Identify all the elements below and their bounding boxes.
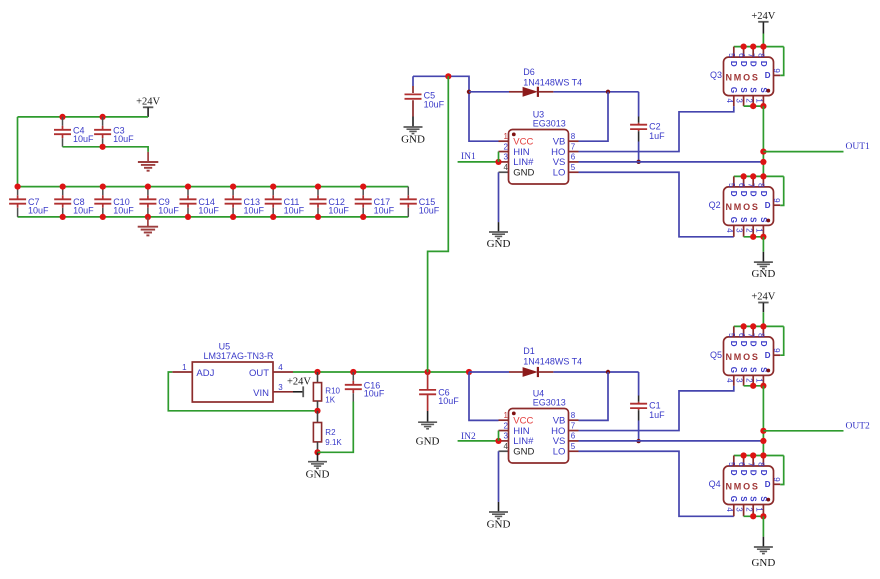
svg-text:6: 6: [737, 462, 746, 467]
svg-text:EG3013: EG3013: [533, 398, 566, 408]
wire IN2: [458, 440, 499, 442]
wire LO (U3 pin5 to Q2 gate): [579, 172, 734, 237]
wire Q4 drain top: [734, 455, 784, 457]
wire Q4 pin9 loop: [780, 456, 784, 485]
svg-text:2: 2: [744, 507, 753, 512]
pin 1 ADJ: [172, 371, 192, 373]
wire vertical left rail drop: [17, 117, 19, 187]
svg-text:8: 8: [757, 333, 766, 338]
svg-text:10uF: 10uF: [158, 206, 179, 216]
svg-text:LO: LO: [553, 168, 566, 179]
svg-text:D: D: [765, 201, 771, 210]
wire ADJ feedback: [168, 372, 317, 411]
capacitor C13: [232, 187, 234, 196]
wire D6 cathode: [538, 91, 554, 93]
svg-text:7: 7: [746, 333, 755, 338]
svg-text:7: 7: [571, 421, 576, 430]
svg-text:D: D: [739, 341, 748, 347]
svg-text:D: D: [765, 480, 771, 489]
node C1 bottom junction: [636, 439, 640, 443]
capacitor C15: [407, 187, 409, 196]
svg-text:HO: HO: [551, 426, 565, 437]
svg-text:VB: VB: [553, 137, 566, 148]
diode D6: [523, 87, 538, 97]
svg-text:1: 1: [755, 228, 764, 233]
svg-text:6: 6: [737, 183, 746, 188]
wire Q2 source to ground: [762, 237, 764, 252]
svg-text:7: 7: [571, 142, 576, 151]
capacitor C10: [102, 187, 104, 196]
svg-text:10uF: 10uF: [244, 206, 265, 216]
svg-text:VCC: VCC: [513, 137, 533, 148]
junction dots Q4 source: [750, 513, 756, 519]
svg-text:1: 1: [755, 98, 764, 103]
svg-text:D: D: [739, 470, 748, 476]
wire VB (U3 pin8): [579, 92, 609, 141]
pin 4 OUT: [273, 371, 293, 373]
svg-text:HO: HO: [551, 147, 565, 158]
wire U4 VCC drop: [469, 372, 499, 420]
svg-text:7: 7: [746, 183, 755, 188]
wire Q5 pin9 loop: [780, 326, 784, 355]
node R10 top: [314, 369, 320, 375]
svg-text:6: 6: [571, 432, 576, 441]
svg-text:1: 1: [503, 411, 508, 420]
svg-text:1K: 1K: [325, 395, 335, 404]
node C2 bottom junction: [636, 160, 640, 164]
svg-text:10uF: 10uF: [374, 206, 395, 216]
svg-text:NMOS: NMOS: [726, 481, 760, 491]
svg-text:D: D: [739, 61, 748, 67]
svg-text:10uF: 10uF: [73, 134, 94, 144]
wire C16 bottom to R2 bottom: [318, 402, 354, 453]
wire IN1: [458, 161, 499, 163]
junction dots Q5 source: [750, 383, 756, 389]
svg-text:D: D: [759, 61, 768, 67]
wire VS (U4 pin6 to output node): [579, 440, 764, 442]
wire Q2 drain top: [734, 175, 784, 177]
svg-text:D6: D6: [523, 67, 535, 77]
node D6 cathode junction: [606, 90, 610, 94]
ground GND (below U4): [489, 511, 508, 513]
wire OUT1: [763, 151, 843, 153]
svg-text:NMOS: NMOS: [726, 72, 760, 82]
ground GND (below R2): [317, 452, 319, 461]
svg-text:VCC: VCC: [513, 416, 533, 427]
junction dots Q4 drain: [741, 452, 747, 458]
svg-text:1N4148WS T4: 1N4148WS T4: [523, 357, 582, 367]
transistor Q5 (NMOS): [733, 326, 735, 338]
svg-text:10uF: 10uF: [438, 396, 459, 406]
svg-text:G: G: [729, 87, 738, 93]
svg-text:EG3013: EG3013: [533, 119, 566, 129]
capacitor C1: [638, 372, 640, 396]
svg-text:D: D: [765, 71, 771, 80]
svg-text:R10: R10: [325, 386, 340, 395]
svg-text:8: 8: [757, 183, 766, 188]
svg-text:LIN#: LIN#: [513, 436, 534, 447]
wire C4/C3 bottom to ground: [63, 147, 149, 152]
svg-text:D: D: [729, 61, 738, 67]
svg-text:OUT: OUT: [249, 368, 269, 379]
svg-text:3: 3: [503, 432, 508, 441]
svg-text:2: 2: [744, 98, 753, 103]
capacitor C11: [272, 187, 274, 196]
svg-text:10uF: 10uF: [424, 99, 445, 109]
svg-text:D: D: [729, 341, 738, 347]
node R2 bottom junction: [314, 449, 320, 455]
svg-text:VIN: VIN: [253, 388, 269, 399]
svg-text:1uF: 1uF: [649, 410, 665, 420]
svg-text:GND: GND: [401, 133, 425, 145]
svg-text:1: 1: [182, 363, 187, 372]
svg-text:LM317AG-TN3-R: LM317AG-TN3-R: [204, 351, 275, 361]
node D1 anode corner: [466, 369, 472, 375]
svg-text:8: 8: [757, 462, 766, 467]
ground GND (below U3): [489, 231, 508, 233]
svg-text:D: D: [729, 191, 738, 197]
junction dots Q3 source: [750, 103, 756, 109]
wire Q2 source bottom: [744, 236, 764, 238]
resistor R2: [317, 411, 319, 423]
wire Q4 source to ground: [762, 516, 764, 536]
wire +24V horizontal top-left: [18, 116, 149, 118]
svg-text:IN1: IN1: [461, 152, 476, 162]
svg-text:HIN: HIN: [513, 426, 530, 437]
wire U4 GND to ground: [498, 451, 500, 502]
svg-text:GND: GND: [306, 469, 330, 481]
wire HIN-LIN tie: [498, 152, 500, 162]
junction dots Q5 drain: [741, 323, 747, 329]
node C3 top junction: [100, 114, 106, 120]
svg-text:10uF: 10uF: [198, 206, 219, 216]
svg-text:D: D: [759, 341, 768, 347]
transistor Q2 (NMOS): [733, 176, 735, 188]
wire D6 anode: [469, 91, 509, 93]
node R10/R2 junction: [314, 408, 320, 414]
svg-text:R2: R2: [325, 428, 336, 437]
svg-text:S: S: [739, 87, 748, 93]
svg-text:1uF: 1uF: [649, 131, 665, 141]
wire Q3 source bottom: [744, 105, 764, 107]
svg-text:4: 4: [725, 507, 734, 512]
wire HO (U4 pin7 to Q5 gate): [579, 386, 734, 431]
svg-text:9: 9: [772, 348, 781, 353]
svg-text:5: 5: [727, 183, 736, 188]
node green riser tap: [445, 73, 451, 79]
junction dots Q3 drain: [741, 44, 747, 50]
node D1 cathode junction: [606, 370, 610, 374]
capacitor C8: [62, 187, 64, 196]
ground GND (below C5): [412, 117, 414, 128]
svg-text:GND: GND: [751, 268, 775, 280]
svg-text:GND: GND: [751, 557, 775, 569]
svg-text:5: 5: [571, 163, 576, 172]
svg-text:G: G: [729, 217, 738, 223]
node VS tap: [760, 159, 766, 165]
wire D1 anode: [469, 371, 509, 373]
svg-text:9.1K: 9.1K: [325, 438, 342, 447]
wire Q5 source bottom: [744, 385, 764, 387]
svg-text:3: 3: [503, 153, 508, 162]
svg-text:GND: GND: [416, 435, 440, 447]
node IN1 junction: [495, 159, 501, 165]
svg-text:+24V: +24V: [287, 376, 311, 387]
svg-text:NMOS: NMOS: [726, 352, 760, 362]
junction dots capacitor bank bottom rail: [60, 214, 66, 220]
svg-text:OUT2: OUT2: [846, 421, 871, 431]
svg-text:GND: GND: [487, 238, 511, 250]
svg-text:2: 2: [503, 142, 508, 151]
pin 3 VIN: [273, 391, 293, 393]
svg-text:1N4148WS T4: 1N4148WS T4: [523, 78, 582, 88]
svg-text:S: S: [739, 217, 748, 223]
svg-text:8: 8: [571, 411, 576, 420]
svg-text:VS: VS: [553, 157, 566, 168]
svg-text:4: 4: [503, 442, 508, 451]
transistor Q4 (NMOS): [733, 456, 735, 468]
svg-text:1: 1: [755, 507, 764, 512]
svg-text:VB: VB: [553, 416, 566, 427]
svg-text:LIN#: LIN#: [513, 157, 534, 168]
svg-text:5: 5: [727, 333, 736, 338]
ground (earth, capacitor bank): [147, 217, 149, 227]
svg-text:S: S: [749, 217, 758, 223]
op-amp U3 (EG3013 gate driver): [499, 140, 509, 142]
svg-text:Q2: Q2: [709, 200, 721, 210]
capacitor C12: [317, 187, 319, 196]
svg-text:LO: LO: [553, 447, 566, 458]
svg-text:10uF: 10uF: [284, 206, 305, 216]
wire Q3 drain top: [734, 46, 784, 48]
wire phase node (Q5 source to Q4 drain): [762, 386, 764, 456]
svg-text:D: D: [759, 191, 768, 197]
svg-text:D: D: [765, 351, 771, 360]
svg-text:3: 3: [735, 228, 744, 233]
svg-text:5: 5: [571, 442, 576, 451]
diode D1: [523, 367, 538, 377]
svg-text:ADJ: ADJ: [196, 368, 214, 379]
svg-text:3: 3: [278, 383, 283, 392]
wire capacitor bank top rail: [18, 186, 409, 188]
svg-text:3: 3: [735, 98, 744, 103]
svg-text:GND: GND: [513, 447, 534, 458]
svg-text:10uF: 10uF: [419, 206, 440, 216]
svg-text:OUT1: OUT1: [846, 142, 871, 152]
svg-text:6: 6: [737, 53, 746, 58]
capacitor C3: [102, 117, 104, 126]
node IN2 junction: [495, 438, 501, 444]
op-amp U4 (EG3013 gate driver): [499, 419, 509, 421]
node OUT1 tap: [760, 149, 766, 155]
svg-text:D: D: [749, 191, 758, 197]
wire VCC top (C5 to U3 VCC): [413, 76, 499, 141]
wire VS (U3 pin6 to output node): [579, 161, 764, 163]
wire HIN-LIN tie (U4): [498, 431, 500, 441]
ground (earth, top-left): [147, 152, 149, 162]
svg-text:U5: U5: [219, 341, 231, 351]
wire VB (U4 pin8): [579, 372, 609, 420]
svg-text:10uF: 10uF: [73, 206, 94, 216]
junction dots Q2 drain: [741, 173, 747, 179]
svg-text:Q3: Q3: [710, 70, 722, 80]
node C4 top junction: [59, 114, 65, 120]
capacitor C17: [362, 187, 364, 196]
wire HO (U3 pin7 to Q3 gate): [579, 106, 734, 151]
wire Q4 source bottom: [744, 515, 764, 517]
svg-text:D: D: [749, 470, 758, 476]
node riser join: [425, 369, 431, 375]
svg-text:10uF: 10uF: [364, 389, 385, 399]
capacitor C4: [62, 117, 64, 126]
node VS tap (bottom): [760, 438, 766, 444]
transistor Q3 (NMOS): [733, 47, 735, 59]
svg-text:D1: D1: [523, 346, 535, 356]
svg-text:9: 9: [772, 198, 781, 203]
svg-text:D: D: [749, 61, 758, 67]
svg-text:HIN: HIN: [513, 147, 530, 158]
svg-text:9: 9: [772, 477, 781, 482]
node C3 bottom junction: [100, 144, 106, 150]
svg-text:D: D: [729, 470, 738, 476]
svg-text:4: 4: [725, 98, 734, 103]
ground GND (below C6): [427, 411, 429, 422]
node D6 anode tee: [467, 90, 471, 94]
svg-text:10uF: 10uF: [28, 206, 49, 216]
svg-text:D: D: [739, 191, 748, 197]
svg-text:1: 1: [503, 132, 508, 141]
capacitor C14: [187, 187, 189, 196]
ground GND (below Q4): [754, 546, 773, 548]
svg-text:10uF: 10uF: [113, 134, 134, 144]
svg-text:8: 8: [757, 53, 766, 58]
junction dots Q2 source: [750, 234, 756, 240]
svg-text:NMOS: NMOS: [726, 202, 760, 212]
capacitor C7: [17, 187, 19, 196]
capacitor C5: [412, 76, 414, 86]
svg-text:S: S: [749, 367, 758, 373]
wire LO (U4 pin5 to Q4 gate): [579, 451, 734, 516]
wire D1 cathode: [538, 371, 554, 373]
svg-text:9: 9: [772, 68, 781, 73]
svg-text:S: S: [749, 496, 758, 502]
svg-text:1: 1: [755, 378, 764, 383]
wire OUT2: [763, 430, 843, 432]
capacitor C16: [352, 372, 354, 381]
svg-text:4: 4: [503, 163, 508, 172]
svg-text:S: S: [739, 367, 748, 373]
junction dots capacitor bank top rail: [15, 184, 21, 190]
svg-text:S: S: [749, 87, 758, 93]
svg-text:+24V: +24V: [136, 96, 160, 107]
resistor R10: [317, 372, 319, 383]
svg-text:5: 5: [727, 462, 736, 467]
node OUT2 tap: [760, 428, 766, 434]
svg-text:2: 2: [503, 421, 508, 430]
svg-text:2: 2: [744, 378, 753, 383]
wire Q2 pin9 loop: [780, 176, 784, 205]
svg-text:7: 7: [746, 462, 755, 467]
regulator U5 LM317AG-TN3-R: [192, 362, 273, 402]
ground GND (below Q2): [754, 261, 773, 263]
svg-text:Q4: Q4: [709, 479, 721, 489]
svg-text:G: G: [729, 496, 738, 502]
svg-text:+24V: +24V: [751, 11, 775, 22]
svg-text:3: 3: [735, 378, 744, 383]
capacitor C6: [427, 372, 429, 390]
svg-text:GND: GND: [487, 519, 511, 531]
svg-text:4: 4: [725, 378, 734, 383]
svg-text:4: 4: [278, 363, 283, 372]
svg-text:G: G: [729, 367, 738, 373]
svg-text:+24V: +24V: [751, 292, 775, 303]
svg-text:D: D: [759, 470, 768, 476]
wire phase node (Q3 source to Q2 drain): [762, 106, 764, 176]
svg-text:7: 7: [746, 53, 755, 58]
svg-text:Q5: Q5: [710, 350, 722, 360]
node C16 top: [350, 369, 356, 375]
wire capacitor bank bottom rail: [18, 216, 409, 218]
svg-text:10uF: 10uF: [328, 206, 349, 216]
svg-text:GND: GND: [513, 168, 534, 179]
svg-text:D: D: [749, 341, 758, 347]
svg-text:3: 3: [735, 507, 744, 512]
svg-text:6: 6: [571, 153, 576, 162]
svg-text:VS: VS: [553, 436, 566, 447]
power symbol +24V (VIN): [293, 391, 303, 393]
svg-text:10uF: 10uF: [113, 206, 134, 216]
capacitor C2: [638, 92, 640, 117]
svg-text:4: 4: [725, 228, 734, 233]
wire U5 OUT rail: [293, 371, 469, 373]
svg-text:S: S: [739, 496, 748, 502]
capacitor C9: [147, 187, 149, 196]
wire riser (VCC feed, top): [428, 76, 449, 372]
wire Q5 drain top: [734, 325, 784, 327]
svg-text:8: 8: [571, 132, 576, 141]
svg-text:6: 6: [737, 333, 746, 338]
svg-text:5: 5: [727, 53, 736, 58]
wire Q3 pin9 loop: [780, 47, 784, 76]
wire U3 GND to ground: [498, 172, 500, 222]
svg-text:2: 2: [744, 228, 753, 233]
